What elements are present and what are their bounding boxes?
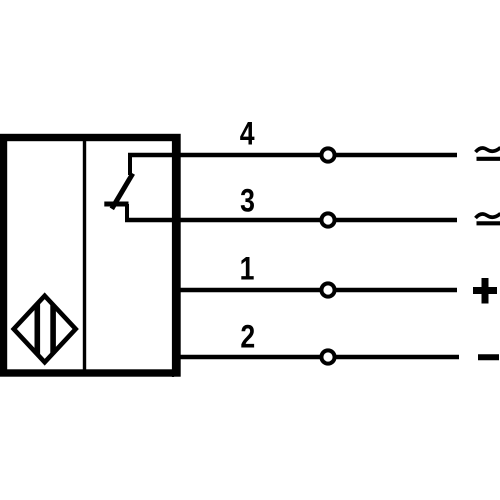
- AC symbol at wire 4: [476, 148, 500, 159]
- terminal circle pin 3: [321, 213, 334, 226]
- plus symbol at wire 1: [473, 278, 497, 304]
- svg-text:4: 4: [240, 116, 255, 152]
- inductive sensor symbol (rhombus): [14, 294, 76, 363]
- terminal circle pin 1: [321, 283, 334, 296]
- sensor body outline: [4, 138, 178, 374]
- AC symbol at wire 3: [476, 214, 500, 224]
- sensor body divider: [83, 137, 86, 373]
- wire 1: [177, 288, 457, 293]
- switch contact: fixed contact tick: [104, 202, 128, 207]
- sensor body right edge thickening: [172, 134, 174, 377]
- switch contact: movable blade: [112, 174, 133, 209]
- minus symbol at wire 2: [478, 354, 499, 360]
- terminal circle pin 2: [321, 350, 334, 363]
- wire 4: [128, 153, 457, 158]
- wire 3: [125, 218, 457, 223]
- wire 2: [177, 355, 459, 360]
- svg-text:3: 3: [240, 183, 255, 219]
- terminal circle pin 4: [321, 148, 334, 161]
- switch contact: upper terminal stub: [128, 154, 132, 176]
- switch contact: lower terminal stub: [125, 204, 129, 220]
- svg-text:1: 1: [240, 251, 255, 287]
- svg-text:2: 2: [240, 319, 255, 355]
